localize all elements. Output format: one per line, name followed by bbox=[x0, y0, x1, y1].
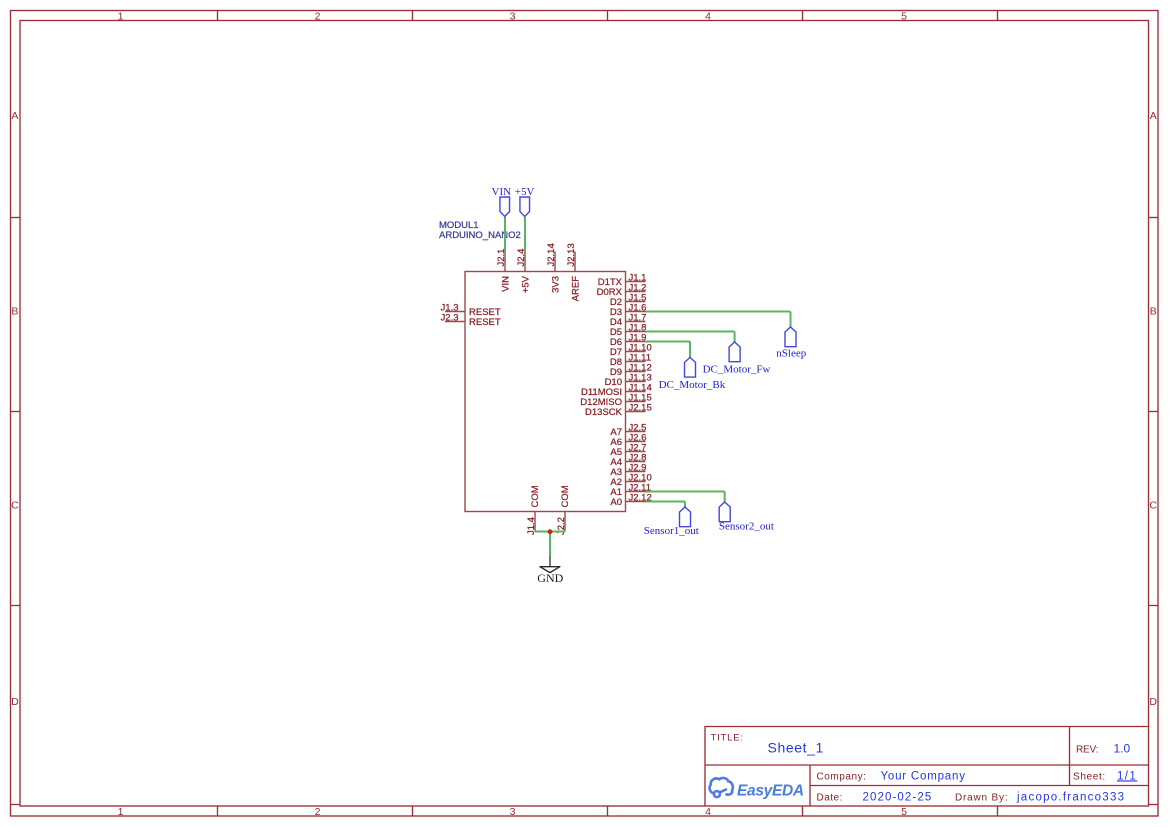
svg-text:1: 1 bbox=[118, 806, 124, 818]
pin J1.2 (D0RX) right stub bbox=[626, 291, 646, 293]
svg-text:A: A bbox=[11, 110, 18, 122]
pin J2.5 (A7) right stub bbox=[626, 431, 646, 433]
svg-text:J2.13: J2.13 bbox=[566, 243, 577, 266]
ruler tick top bbox=[997, 11, 999, 21]
pin J2.3 (RESET) left stub bbox=[445, 321, 465, 323]
svg-text:J2.14: J2.14 bbox=[546, 243, 557, 266]
svg-text:B: B bbox=[11, 306, 18, 318]
pin J2.7 (A5) right stub bbox=[626, 451, 646, 453]
ground symbol GND bbox=[549, 557, 551, 567]
ruler tick bottom bbox=[217, 806, 219, 817]
wire D3 to nSleep horizontal bbox=[646, 311, 791, 313]
svg-text:J2.15: J2.15 bbox=[629, 402, 652, 413]
net flag +5V bbox=[520, 197, 530, 217]
svg-text:GND: GND bbox=[537, 571, 563, 585]
pin J2.15 (D13SCK) right stub bbox=[626, 411, 646, 413]
pin J2.6 (A6) right stub bbox=[626, 441, 646, 443]
wire VIN flag to pin J2.1 bbox=[504, 217, 506, 252]
svg-text:Sensor2_out: Sensor2_out bbox=[719, 521, 774, 533]
title block outline bbox=[705, 727, 1149, 807]
pin J1.13 (D10) right stub bbox=[626, 381, 646, 383]
junction dot GND net bbox=[548, 529, 553, 534]
svg-text:B: B bbox=[1150, 306, 1157, 318]
wire D6 to DC_Motor_Bk horizontal bbox=[646, 341, 691, 343]
ruler tick left bbox=[11, 605, 21, 607]
wire COM to COM bbox=[535, 531, 565, 533]
svg-text:C: C bbox=[1149, 500, 1157, 512]
ruler tick left bbox=[11, 217, 21, 219]
wire +5V flag to pin J2.4 bbox=[524, 217, 526, 252]
svg-text:Sensor1_out: Sensor1_out bbox=[644, 525, 699, 537]
svg-text:RESET: RESET bbox=[469, 317, 501, 328]
ruler tick right bottom bbox=[1149, 804, 1159, 806]
wire to ground bbox=[549, 532, 551, 558]
ruler tick bottom bbox=[802, 806, 804, 817]
net flag Sensor2_out bbox=[719, 502, 730, 522]
ruler tick top bbox=[607, 11, 609, 21]
svg-text:Sheet_1: Sheet_1 bbox=[768, 740, 824, 756]
ruler tick right bbox=[1149, 411, 1159, 413]
ruler tick top bbox=[217, 11, 219, 21]
pin J1.8 (D5) right stub bbox=[626, 331, 646, 333]
svg-text:+5V: +5V bbox=[515, 186, 535, 198]
wire A0 to Sensor1_out vertical bbox=[684, 502, 686, 508]
pin J2.13 (AREF) top stub bbox=[574, 252, 576, 272]
svg-text:C: C bbox=[11, 500, 19, 512]
svg-text:ARDUINO_NANO2: ARDUINO_NANO2 bbox=[439, 230, 521, 241]
pin J2.1 (VIN) top stub bbox=[504, 252, 506, 272]
svg-text:3: 3 bbox=[510, 10, 516, 22]
svg-text:5: 5 bbox=[901, 806, 907, 818]
svg-text:2: 2 bbox=[315, 806, 321, 818]
pin J2.2 (COM) bottom stub bbox=[564, 512, 566, 532]
pin J1.12 (D9) right stub bbox=[626, 371, 646, 373]
svg-text:DC_Motor_Bk: DC_Motor_Bk bbox=[659, 379, 726, 391]
pin J2.11 (A1) right stub bbox=[626, 491, 646, 493]
svg-text:2: 2 bbox=[315, 10, 321, 22]
pin J2.10 (A2) right stub bbox=[626, 481, 646, 483]
net flag nSleep bbox=[785, 327, 796, 347]
ruler tick right bbox=[1149, 605, 1159, 607]
net flag Sensor1_out bbox=[680, 507, 691, 527]
svg-text:DC_Motor_Fw: DC_Motor_Fw bbox=[703, 364, 771, 376]
svg-text:A: A bbox=[1150, 110, 1157, 122]
svg-text:1/1: 1/1 bbox=[1117, 770, 1137, 782]
svg-text:3: 3 bbox=[510, 806, 516, 818]
pin J1.6 (D3) right stub bbox=[626, 311, 646, 313]
net flag DC_Motor_Bk bbox=[685, 357, 696, 377]
wire D5 to DC_Motor_Fw horizontal bbox=[646, 331, 735, 333]
pin J2.14 (3V3) top stub bbox=[554, 252, 556, 272]
pin J2.4 (+5V) top stub bbox=[524, 252, 526, 272]
svg-text:TITLE:: TITLE: bbox=[711, 732, 744, 743]
svg-text:D: D bbox=[1149, 696, 1157, 708]
ruler tick bottom bbox=[412, 806, 414, 817]
ruler tick left bottom bbox=[11, 804, 21, 806]
svg-text:A0: A0 bbox=[610, 497, 622, 508]
svg-text:D13SCK: D13SCK bbox=[585, 407, 623, 418]
pin J1.9 (D6) right stub bbox=[626, 341, 646, 343]
svg-text:Company:: Company: bbox=[817, 771, 867, 782]
svg-text:1: 1 bbox=[118, 10, 124, 22]
svg-text:Drawn By:: Drawn By: bbox=[955, 792, 1008, 803]
ruler tick bottom bbox=[997, 806, 999, 817]
net flag VIN bbox=[500, 197, 510, 217]
ruler tick top bbox=[412, 11, 414, 21]
svg-text:4: 4 bbox=[705, 10, 711, 22]
ruler tick right bbox=[1149, 217, 1159, 219]
pin J1.14 (D11MOSI) right stub bbox=[626, 391, 646, 393]
svg-text:4: 4 bbox=[705, 806, 711, 818]
svg-text:VIN: VIN bbox=[492, 186, 512, 198]
ruler tick left bbox=[11, 411, 21, 413]
ruler tick top bbox=[802, 11, 804, 21]
svg-text:COM: COM bbox=[560, 485, 571, 507]
svg-text:2020-02-25: 2020-02-25 bbox=[863, 791, 933, 803]
pin J1.11 (D8) right stub bbox=[626, 361, 646, 363]
svg-text:AREF: AREF bbox=[570, 276, 581, 302]
svg-text:3V3: 3V3 bbox=[550, 276, 561, 293]
pin J1.1 (D1TX) right stub bbox=[626, 281, 646, 283]
pin J1.15 (D12MISO) right stub bbox=[626, 401, 646, 403]
wire D6 to DC_Motor_Bk vertical bbox=[689, 342, 691, 358]
net flag DC_Motor_Fw bbox=[729, 342, 740, 362]
svg-text:jacopo.franco333: jacopo.franco333 bbox=[1016, 791, 1125, 803]
svg-text:EasyEDA: EasyEDA bbox=[737, 782, 804, 799]
wire A1 to Sensor2_out vertical bbox=[724, 492, 726, 503]
wire D3 to nSleep vertical bbox=[790, 312, 792, 328]
svg-text:J2.3: J2.3 bbox=[441, 312, 459, 323]
component MODUL1 ARDUINO_NANO2 body bbox=[465, 272, 626, 512]
pin J2.8 (A4) right stub bbox=[626, 461, 646, 463]
pin J1.4 (COM) bottom stub bbox=[534, 512, 536, 532]
svg-text:REV:: REV: bbox=[1076, 745, 1098, 756]
wire A1 to Sensor2_out horizontal bbox=[646, 491, 725, 493]
svg-text:5: 5 bbox=[901, 10, 907, 22]
pin J1.3 (RESET) left stub bbox=[445, 311, 465, 313]
pin J1.5 (D2) right stub bbox=[626, 301, 646, 303]
pin J2.9 (A3) right stub bbox=[626, 471, 646, 473]
svg-text:+5V: +5V bbox=[520, 275, 531, 293]
pin J1.10 (D7) right stub bbox=[626, 351, 646, 353]
svg-text:Your Company: Your Company bbox=[881, 770, 966, 782]
svg-text:nSleep: nSleep bbox=[776, 348, 806, 360]
EasyEDA logo cloud icon bbox=[710, 778, 733, 797]
svg-text:D: D bbox=[11, 696, 19, 708]
svg-text:1.0: 1.0 bbox=[1114, 742, 1131, 756]
wire A0 to Sensor1_out horizontal bbox=[646, 501, 686, 503]
svg-text:COM: COM bbox=[530, 485, 541, 507]
wire D5 to DC_Motor_Fw vertical bbox=[734, 332, 736, 343]
ruler tick bottom bbox=[607, 806, 609, 817]
svg-text:Date:: Date: bbox=[817, 792, 843, 803]
pin J1.7 (D4) right stub bbox=[626, 321, 646, 323]
svg-text:Sheet:: Sheet: bbox=[1073, 771, 1106, 782]
svg-text:VIN: VIN bbox=[500, 276, 511, 292]
pin J2.12 (A0) right stub bbox=[626, 501, 646, 503]
